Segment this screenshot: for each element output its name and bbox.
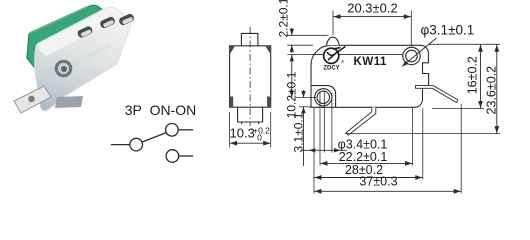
extension line plunger top xyxy=(287,34,328,36)
wire: upper throw lead xyxy=(178,129,193,131)
photo mounting hole xyxy=(55,60,73,78)
svg-text:10.3: 10.3 xyxy=(230,126,255,141)
terminal pin bottom xyxy=(346,107,376,135)
extension line 28 right xyxy=(422,108,424,180)
main view body outline xyxy=(311,45,429,107)
extension line hole center down xyxy=(323,91,325,153)
dimension 22.2 line xyxy=(320,162,413,164)
photo green base xyxy=(27,5,107,73)
lever arm xyxy=(416,86,458,103)
side view plunger button xyxy=(241,33,258,45)
main view cover seam line xyxy=(311,53,403,55)
svg-text:3.1±0.1: 3.1±0.1 xyxy=(292,112,306,152)
terminal: upper throw circle xyxy=(166,124,179,137)
terminal: lower throw circle xyxy=(166,150,179,163)
main view bottom-left hole boss xyxy=(311,86,336,108)
photo bottom terminal block xyxy=(55,96,83,108)
dimension 2.2 line with outside arrows xyxy=(291,28,293,35)
mounting hole top-right outer xyxy=(403,47,420,64)
wire: lower throw lead xyxy=(179,155,193,157)
extension line 22.2 left xyxy=(319,92,321,166)
svg-text:37±0.3: 37±0.3 xyxy=(359,174,397,188)
dimension 28 line xyxy=(314,177,423,179)
leader line for hole dia 3.1 xyxy=(402,38,437,67)
svg-text:0: 0 xyxy=(257,133,262,143)
extension line 22.2 right xyxy=(412,108,414,166)
mounting hole bottom-left outer xyxy=(315,89,332,106)
svg-text:10.2±0.1: 10.2±0.1 xyxy=(285,71,299,118)
wire: common lead xyxy=(111,144,130,146)
extension line body top right xyxy=(429,43,500,45)
dimension 37 line xyxy=(314,190,461,192)
switch lever wire xyxy=(142,133,166,142)
extension line 37 right xyxy=(460,104,462,194)
side view body outline xyxy=(230,46,271,107)
terminal: common pole circle xyxy=(130,138,143,151)
dimension 10.2 line xyxy=(291,54,293,97)
photo grey top face xyxy=(37,10,121,56)
mounting hole top-right inner xyxy=(406,50,418,62)
dimension 20.3 extension lines xyxy=(332,11,334,36)
extension line body top xyxy=(287,44,313,46)
photo grey cover xyxy=(35,7,131,111)
svg-text:23.6±0.2: 23.6±0.2 xyxy=(484,66,498,115)
svg-text:ZDCY: ZDCY xyxy=(323,65,339,71)
side view bottom-right chamfer xyxy=(267,97,271,108)
side view centerline xyxy=(249,27,251,126)
dimension 10.3 extension lines xyxy=(229,112,231,148)
side view top-left chamfer xyxy=(230,46,236,55)
svg-text:20.3±0.2: 20.3±0.2 xyxy=(347,1,398,16)
dimension 20.3 line xyxy=(333,16,411,18)
extension line hole right edge down xyxy=(331,93,333,153)
dimension 23.6 line xyxy=(496,44,498,133)
svg-text:®: ® xyxy=(341,59,345,65)
logo circle ZDCY xyxy=(324,48,339,63)
svg-text:3P ON-ON: 3P ON-ON xyxy=(125,102,197,118)
extension line body bottom left xyxy=(299,106,312,108)
photo terminal slot 1 xyxy=(77,25,94,38)
side view terminal block xyxy=(238,107,263,124)
side view top-right chamfer xyxy=(265,46,271,55)
dimension 10.3 line xyxy=(230,142,271,144)
svg-text:22.2±0.1: 22.2±0.1 xyxy=(339,150,388,164)
logo swoosh xyxy=(327,47,346,61)
svg-text:16±0.2: 16±0.2 xyxy=(465,56,479,94)
extension line lever tip level xyxy=(432,108,484,110)
dimension 3.1 line with outside arrows xyxy=(303,90,305,98)
photo terminal slot 2 xyxy=(99,16,116,29)
mounting hole bottom-left inner xyxy=(317,91,329,103)
extension line seam left xyxy=(287,53,311,55)
photo metal terminal tab xyxy=(14,86,51,113)
svg-text:φ3.1±0.1: φ3.1±0.1 xyxy=(421,23,475,38)
extension line pin bottom level xyxy=(345,133,500,135)
extension line hole center left xyxy=(296,97,316,99)
svg-text:2.2±0.1: 2.2±0.1 xyxy=(276,0,290,37)
main view plunger dome xyxy=(327,37,340,45)
side view bottom-left chamfer xyxy=(230,97,234,108)
extension line 28/37 left xyxy=(313,108,315,194)
photo terminal slot 3 xyxy=(118,13,135,26)
dimension 16 line xyxy=(480,44,482,108)
dimension dia 3.4 line xyxy=(303,149,348,151)
svg-text:KW11: KW11 xyxy=(354,56,387,68)
